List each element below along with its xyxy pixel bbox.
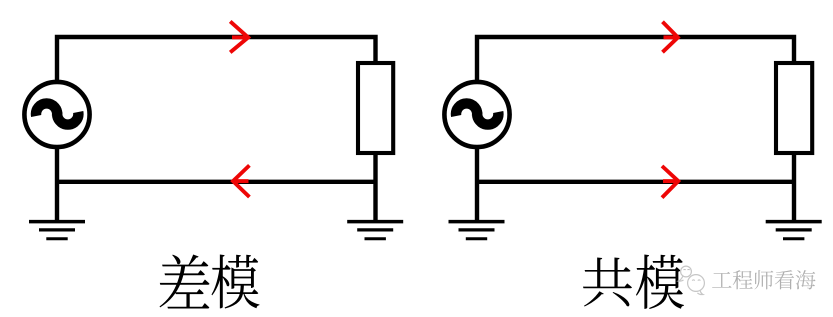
ground (right load) xyxy=(766,222,822,239)
wire: right circuit bottom wire xyxy=(477,180,794,184)
ground (right source) xyxy=(449,222,505,239)
current arrow: left circuit top wire, pointing right xyxy=(230,21,248,52)
wire: left circuit bottom wire xyxy=(57,180,376,184)
watermark logo: chat-bubble emblem xyxy=(679,266,705,294)
wire: right source bottom lead to ground xyxy=(475,145,479,222)
current arrow: left circuit bottom wire, pointing left xyxy=(233,165,249,197)
wire: right circuit top loop (source top lead, top wire, resistor top lead) xyxy=(477,37,794,82)
watermark text: 工程师看海 xyxy=(712,270,815,289)
wire: left resistor bottom lead to ground xyxy=(373,151,377,222)
wire: left circuit top loop (source top lead, top wire, resistor top lead) xyxy=(57,37,376,82)
resistor R2 (right circuit load) xyxy=(776,63,812,153)
wire: right resistor bottom lead to ground xyxy=(792,151,796,222)
ground (left source) xyxy=(29,222,85,239)
ground (left load) xyxy=(347,222,403,239)
current arrow: right circuit top wire, pointing right xyxy=(663,22,678,53)
label: 共模 (common mode) xyxy=(583,255,684,309)
AC source V1 (left circuit) xyxy=(24,82,89,147)
label: 差模 (differential mode) xyxy=(160,255,260,309)
resistor R1 (left circuit load) xyxy=(358,63,393,153)
wire: left source bottom lead to ground xyxy=(55,145,59,222)
AC source V2 (right circuit) xyxy=(444,82,509,147)
current arrow: right circuit bottom wire, pointing right xyxy=(662,166,678,198)
